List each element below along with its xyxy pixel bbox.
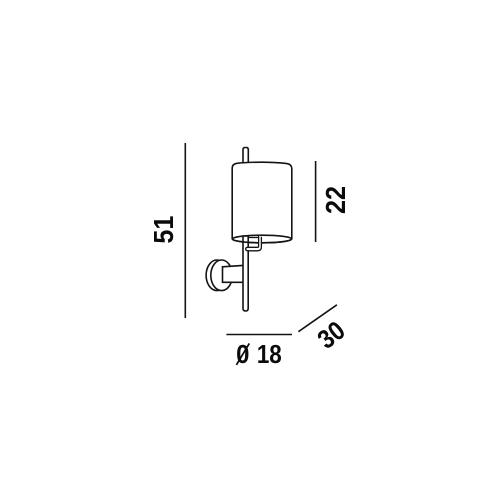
dimension line 22 (right vertical)	[315, 161, 317, 242]
dimension line diameter 18 (bottom horizontal)	[226, 334, 292, 336]
lamp rod top stub	[243, 148, 248, 165]
lamp shade body	[232, 162, 292, 239]
wall plate front disc	[211, 260, 233, 291]
svg-text:22: 22	[320, 186, 352, 214]
socket clamp line	[248, 237, 258, 239]
svg-text:30: 30	[312, 316, 351, 355]
wall plate depth arc	[206, 260, 228, 291]
label diameter 18 : slash of the diameter symbol	[236, 343, 249, 365]
shade support bracket tube	[246, 235, 262, 250]
shade rim front arc over rod	[232, 239, 291, 243]
lamp rod lower segment	[243, 236, 248, 311]
wall arm	[223, 265, 244, 282]
svg-text:51: 51	[148, 215, 180, 243]
dimension line 30 (diagonal depth)	[298, 305, 337, 332]
lamp shade bottom rim ellipse	[232, 235, 291, 243]
dimension line 51 (left vertical)	[184, 143, 186, 318]
svg-text:18: 18	[257, 341, 282, 370]
